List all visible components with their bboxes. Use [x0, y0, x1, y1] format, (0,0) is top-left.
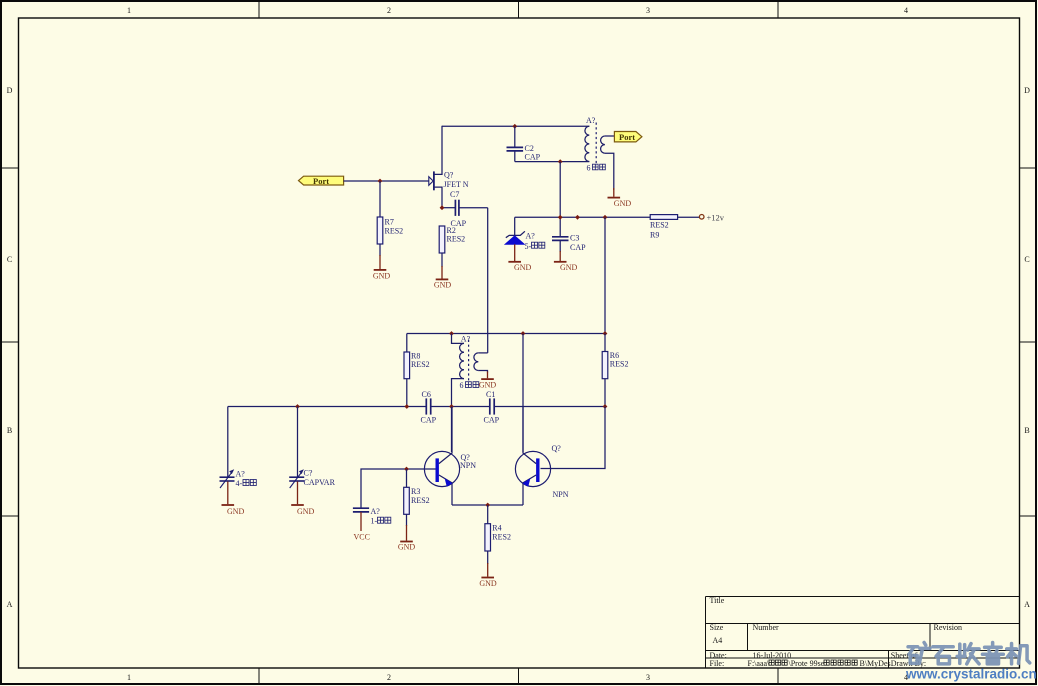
svg-text:NPN: NPN — [460, 461, 476, 470]
file path text — [748, 659, 891, 668]
resistor R2 — [439, 226, 465, 253]
junction — [603, 215, 608, 220]
junction — [449, 331, 454, 336]
ground — [608, 188, 632, 208]
svg-text:Title: Title — [710, 596, 725, 605]
wire — [228, 406, 426, 408]
svg-text:B: B — [7, 426, 12, 435]
port Port (left input) — [299, 176, 344, 186]
junction — [512, 124, 517, 129]
ground — [222, 482, 245, 517]
svg-text:6: 6 — [460, 381, 464, 390]
capacitor C7 — [442, 190, 488, 228]
junction — [521, 331, 526, 336]
transistor Q? NPN (left) — [424, 407, 476, 506]
svg-text:File:: File: — [710, 659, 725, 668]
wire — [604, 217, 606, 333]
svg-text:4-: 4- — [236, 479, 243, 488]
svg-text:R4: R4 — [492, 524, 501, 533]
svg-text:C: C — [7, 255, 12, 264]
junction — [603, 404, 608, 409]
svg-text:GND: GND — [479, 579, 497, 588]
capacitor C1 — [484, 390, 500, 425]
svg-text:6: 6 — [587, 164, 591, 173]
svg-text:Size: Size — [710, 623, 724, 632]
wire — [379, 244, 381, 256]
svg-text:www.crystalradio.cn: www.crystalradio.cn — [905, 667, 1037, 682]
svg-text:5-: 5- — [525, 242, 532, 251]
svg-text:RES2: RES2 — [492, 533, 511, 542]
wire — [452, 504, 523, 506]
svg-text:B: B — [1024, 426, 1029, 435]
svg-text:A?: A? — [586, 116, 596, 125]
ground — [373, 255, 391, 280]
svg-text:CAP: CAP — [525, 152, 541, 161]
svg-text:GND: GND — [479, 380, 497, 389]
transformer A? (middle, 6-type IF) — [452, 334, 488, 407]
svg-text:1: 1 — [127, 6, 131, 15]
resistor R6 — [602, 334, 628, 407]
svg-text:GND: GND — [227, 507, 245, 516]
svg-text:A?: A? — [371, 507, 381, 516]
wire — [495, 406, 605, 408]
svg-text:C?: C? — [304, 469, 313, 478]
power VCC — [354, 512, 370, 542]
svg-text:RES2: RES2 — [411, 496, 430, 505]
transistor Q? NPN (right) — [515, 407, 568, 506]
wire — [451, 407, 453, 453]
wire — [441, 253, 443, 267]
wire — [515, 216, 651, 218]
resistor R3 — [404, 469, 430, 526]
svg-text:RES2: RES2 — [447, 235, 466, 244]
svg-text:1: 1 — [127, 673, 131, 682]
svg-text:Port: Port — [313, 176, 329, 186]
junction — [378, 179, 383, 184]
transformer A? (top, 6-type IF) — [585, 116, 614, 190]
svg-text:4: 4 — [904, 6, 908, 15]
svg-text:A4: A4 — [713, 636, 723, 645]
svg-text:GND: GND — [560, 263, 578, 272]
svg-text:C: C — [1024, 255, 1029, 264]
svg-text:GND: GND — [398, 543, 416, 552]
svg-text:A?: A? — [526, 232, 536, 241]
svg-text:\Prote 99se: \Prote 99se — [789, 659, 825, 668]
junction — [449, 404, 454, 409]
ground — [554, 251, 578, 272]
svg-text:+12v: +12v — [707, 212, 725, 222]
svg-text:CAPVAR: CAPVAR — [304, 478, 336, 487]
transistor Q? JFET N — [429, 126, 469, 208]
wire — [431, 406, 489, 408]
capacitor C2 — [507, 126, 541, 161]
junction — [603, 331, 608, 336]
svg-text:CAP: CAP — [421, 415, 437, 424]
svg-text:A: A — [1024, 600, 1030, 609]
ground — [291, 482, 314, 517]
watermark logo — [908, 643, 1030, 664]
svg-text:D: D — [1024, 86, 1030, 95]
junction — [404, 467, 409, 472]
junction — [404, 404, 409, 409]
svg-text:2: 2 — [387, 6, 391, 15]
svg-text:JFET N: JFET N — [444, 180, 469, 189]
node +12v — [699, 212, 724, 222]
svg-text:1-: 1- — [371, 517, 378, 526]
svg-text:3: 3 — [646, 6, 650, 15]
ground — [479, 372, 497, 390]
ground — [398, 525, 416, 552]
resistor R7 — [377, 217, 403, 244]
svg-text:Q?: Q? — [552, 444, 562, 453]
svg-text:Revision: Revision — [934, 623, 962, 632]
svg-text:CAP: CAP — [570, 243, 586, 252]
capacitor A? fixed (1-type) — [353, 469, 437, 526]
svg-text:A: A — [7, 600, 13, 609]
svg-text:RES2: RES2 — [650, 220, 669, 229]
resistor R9 — [650, 215, 678, 240]
svg-text:R7: R7 — [385, 218, 394, 227]
svg-text:2: 2 — [387, 673, 391, 682]
svg-text:VCC: VCC — [354, 533, 370, 542]
capacitor C6 — [421, 390, 437, 425]
svg-text:GND: GND — [614, 199, 632, 208]
resistor R4 — [485, 505, 511, 564]
svg-text:C3: C3 — [570, 234, 579, 243]
svg-text:R9: R9 — [650, 230, 659, 239]
svg-text:A?: A? — [236, 470, 246, 479]
svg-text:GND: GND — [373, 271, 391, 280]
junction — [575, 215, 580, 220]
wire — [487, 208, 489, 353]
wire — [442, 125, 589, 127]
svg-text:C7: C7 — [450, 190, 459, 199]
ground — [479, 563, 497, 588]
svg-text:C1: C1 — [486, 390, 495, 399]
port Port (top right output) — [614, 132, 642, 142]
capacitor C3 — [552, 234, 586, 253]
svg-text:RES2: RES2 — [411, 360, 430, 369]
ground — [434, 266, 452, 290]
title block — [706, 596, 1020, 668]
wire — [407, 333, 605, 335]
svg-text:3: 3 — [646, 673, 650, 682]
wire — [344, 180, 429, 182]
svg-text:D: D — [7, 86, 13, 95]
junction — [485, 503, 490, 508]
svg-text:Number: Number — [753, 623, 780, 632]
svg-text:CAP: CAP — [484, 415, 500, 424]
svg-text:GND: GND — [297, 507, 315, 516]
wire — [559, 162, 561, 237]
svg-text:RES2: RES2 — [610, 360, 629, 369]
capacitor C? CAPVAR — [289, 407, 335, 489]
svg-text:R3: R3 — [411, 487, 420, 496]
svg-text:F:\aaa\: F:\aaa\ — [748, 659, 771, 668]
wire — [522, 334, 524, 453]
wire — [541, 407, 606, 469]
junction — [558, 215, 563, 220]
svg-text:B\MyDes: B\MyDes — [860, 659, 891, 668]
wire — [515, 161, 590, 163]
junction — [295, 404, 300, 409]
capacitor A? variable (4-gang) — [220, 407, 257, 489]
svg-text:C6: C6 — [422, 390, 431, 399]
svg-text:A?: A? — [461, 335, 471, 344]
wire — [379, 181, 381, 217]
ground — [508, 244, 531, 272]
svg-text:RES2: RES2 — [385, 227, 404, 236]
junction — [558, 159, 563, 164]
svg-text:GND: GND — [434, 281, 452, 290]
diode A? zener 5-type — [505, 217, 545, 251]
svg-text:Port: Port — [619, 132, 635, 142]
svg-text:GND: GND — [514, 263, 532, 272]
junction — [440, 205, 445, 210]
svg-text:NPN: NPN — [553, 490, 569, 499]
resistor R8 — [404, 334, 430, 407]
svg-text:Q?: Q? — [444, 170, 454, 179]
wire — [678, 216, 700, 218]
